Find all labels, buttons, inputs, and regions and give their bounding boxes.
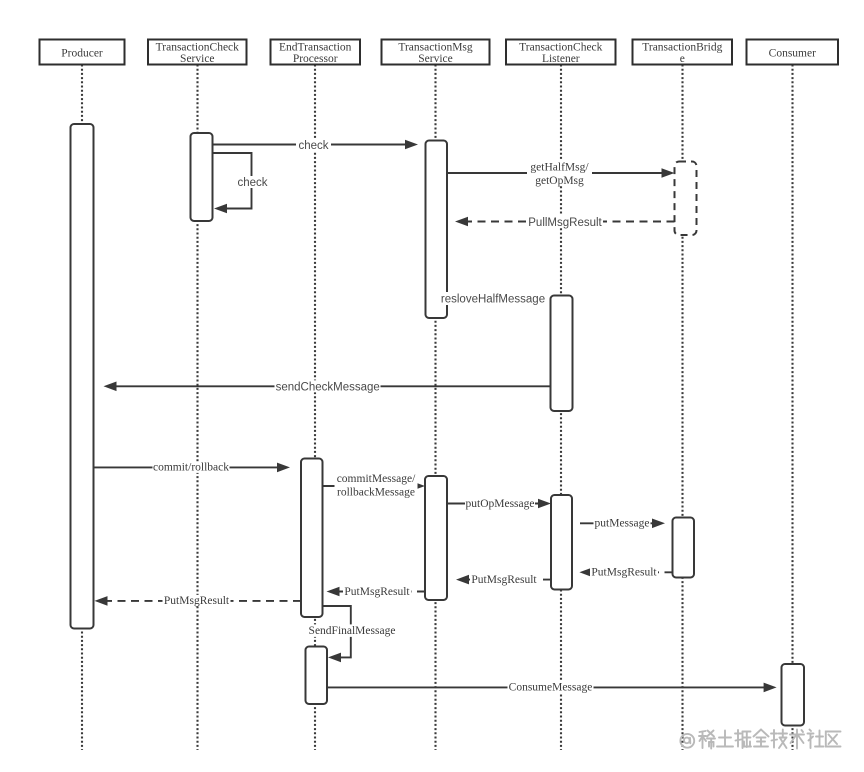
header box TransactionCheckListener <box>506 40 616 66</box>
svg-text:EndTransaction: EndTransaction <box>279 42 352 54</box>
header box Producer <box>40 40 125 65</box>
svg-text:Processor: Processor <box>293 53 338 65</box>
header box Consumer <box>747 40 839 65</box>
watermark glyph xi <box>699 731 715 749</box>
watermark glyph ji <box>771 730 787 749</box>
svg-text:TransactionMsg: TransactionMsg <box>398 42 473 54</box>
activation bar TransactionBridge dashed <box>675 162 697 236</box>
message PutMsgResult processor to producer dashed arrow <box>95 596 302 606</box>
label PutMsgResult left-mid <box>343 586 411 598</box>
header box TransactionBridge <box>633 40 733 66</box>
svg-text:commitMessage/: commitMessage/ <box>337 473 416 485</box>
message ConsumeMessage arrow <box>327 683 777 693</box>
watermark at sign <box>680 734 694 748</box>
header box TransactionCheckService <box>148 40 247 66</box>
header box EndTransactionProcessor <box>271 40 361 66</box>
svg-text:getHalfMsg/: getHalfMsg/ <box>530 162 589 174</box>
svg-text:resloveHalfMessage: resloveHalfMessage <box>441 293 545 305</box>
svg-text:rollbackMessage: rollbackMessage <box>337 486 415 498</box>
lifeline TransactionMsgService <box>434 65 436 751</box>
lifeline TransactionCheckListener <box>560 65 562 751</box>
svg-text:Listener: Listener <box>542 53 580 65</box>
activation bar Producer <box>71 124 94 629</box>
message sendCheckMessage arrow <box>104 382 551 392</box>
svg-text:check: check <box>298 140 328 152</box>
activation bar TransactionCheckListener second <box>551 495 572 590</box>
svg-text:PutMsgResult: PutMsgResult <box>164 595 230 607</box>
lifeline Consumer <box>791 65 793 751</box>
svg-text:sendCheckMessage: sendCheckMessage <box>276 382 380 394</box>
svg-text:Producer: Producer <box>61 48 103 60</box>
label SendFinalMessage <box>307 624 397 637</box>
message commitMessage/rollbackMessage arrow <box>323 481 426 491</box>
activation bar Consumer <box>782 664 805 726</box>
watermark juejin <box>680 730 840 749</box>
activation bar EndTransactionProcessor <box>301 459 323 618</box>
label PutMsgResult middle <box>470 574 538 586</box>
svg-text:TransactionCheck: TransactionCheck <box>156 42 240 54</box>
activation bar TransactionMsgService first <box>426 141 448 319</box>
label ConsumeMessage <box>508 681 594 693</box>
watermark glyph she <box>808 730 824 749</box>
svg-text:TransactionBridg: TransactionBridg <box>642 42 722 54</box>
message PutMsgResult msgservice to processor dashed arrow <box>327 587 426 597</box>
svg-text:TransactionCheck: TransactionCheck <box>519 42 603 54</box>
svg-text:PutMsgResult: PutMsgResult <box>344 586 410 598</box>
svg-text:e: e <box>680 53 685 65</box>
label getHalfMsg/getOpMsg <box>527 161 592 188</box>
message SendFinalMessage self loop <box>323 606 351 662</box>
watermark glyph qu <box>826 732 841 747</box>
svg-text:PutMsgResult: PutMsgResult <box>591 567 657 579</box>
message PutMsgResult listener to msgservice dashed arrow <box>456 575 551 585</box>
svg-text:Consumer: Consumer <box>769 48 816 60</box>
svg-text:PullMsgResult: PullMsgResult <box>528 217 602 229</box>
message putOpMessage arrow <box>447 499 551 509</box>
message PullMsgResult dashed arrow <box>455 217 675 227</box>
svg-text:putOpMessage: putOpMessage <box>466 498 535 510</box>
label putOpMessage <box>465 498 535 510</box>
label check <box>296 139 331 152</box>
message self check loop <box>213 153 252 213</box>
watermark glyph shu <box>790 730 804 749</box>
svg-text:putMessage: putMessage <box>595 518 650 530</box>
svg-text:SendFinalMessage: SendFinalMessage <box>309 625 396 637</box>
lifeline TransactionCheckService <box>196 65 198 751</box>
message getHalfMsg/getOpMsg arrow <box>447 168 675 178</box>
label resloveHalfMessage <box>439 292 547 305</box>
svg-text:ConsumeMessage: ConsumeMessage <box>509 682 593 694</box>
label check self <box>235 176 270 189</box>
label PullMsgResult <box>527 216 603 229</box>
label commit/rollback <box>153 461 230 473</box>
watermark glyph jue <box>735 730 751 748</box>
activation bar TransactionCheckService <box>191 133 213 221</box>
svg-text:getOpMsg: getOpMsg <box>535 175 584 187</box>
label PutMsgResult left <box>163 595 231 607</box>
svg-text:check: check <box>237 177 267 189</box>
message check arrow <box>213 140 419 150</box>
svg-text:Service: Service <box>418 53 452 65</box>
watermark glyph jin <box>754 730 769 747</box>
label sendCheckMessage <box>275 380 381 393</box>
message putMessage arrow <box>580 519 665 529</box>
activation bar TransactionCheckListener first <box>551 296 573 412</box>
svg-text:commit/rollback: commit/rollback <box>153 462 229 474</box>
svg-text:Service: Service <box>180 53 214 65</box>
message PutMsgResult bridge to listener dashed arrow <box>579 568 672 578</box>
label putMessage <box>594 517 651 529</box>
svg-text:PutMsgResult: PutMsgResult <box>471 574 537 586</box>
label commitMessage/rollbackMessage <box>335 473 418 499</box>
message commit/rollback arrow <box>94 463 291 473</box>
lifeline EndTransactionProcessor <box>314 65 316 751</box>
activation bar EndTransactionProcessor second <box>306 647 328 705</box>
watermark glyph tu <box>717 731 733 747</box>
label PutMsgResult right <box>590 566 658 578</box>
activation bar TransactionBridge second <box>673 518 695 578</box>
activation bar TransactionMsgService second <box>425 476 447 600</box>
header box TransactionMsgService <box>382 40 490 66</box>
lifeline Producer <box>81 65 83 751</box>
lifeline TransactionBridge <box>681 65 683 751</box>
